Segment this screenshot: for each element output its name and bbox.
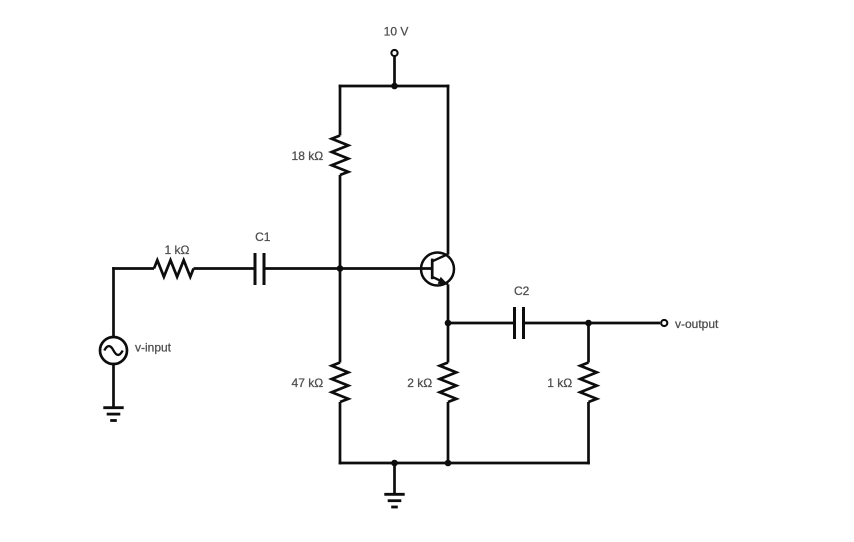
junction at output node: [585, 320, 592, 327]
resistor R 18 kOhm: [332, 136, 349, 176]
svg-text:18 kΩ: 18 kΩ: [292, 149, 324, 163]
svg-text:10 V: 10 V: [384, 25, 409, 39]
wire left chain lower: [339, 402, 342, 464]
wire input corner vertical: [112, 267, 115, 337]
svg-text:1 kΩ: 1 kΩ: [547, 376, 572, 390]
capacitor C2: [515, 307, 524, 339]
wire base node to transistor: [340, 267, 432, 270]
junction at supply: [391, 83, 398, 90]
svg-text:47 kΩ: 47 kΩ: [292, 376, 324, 390]
wire resistor to C1: [194, 267, 256, 270]
resistor R 1 kOhm load: [580, 363, 597, 403]
wire input horizontal left: [112, 267, 154, 270]
junction at ground rail: [391, 460, 398, 467]
wire emitter node to C2: [448, 322, 515, 325]
wire left chain upper: [339, 85, 342, 136]
node v-output terminal: [661, 320, 667, 326]
junction dots: [337, 83, 592, 467]
wire output node to 1k load: [587, 323, 590, 363]
wire bottom rail: [339, 462, 590, 465]
wire 2k to bottom rail: [447, 402, 450, 464]
transistor Q1 NPN: [421, 253, 454, 286]
svg-text:2 kΩ: 2 kΩ: [407, 376, 432, 390]
wire output node to terminal: [589, 322, 661, 325]
wire emitter chain to 2k: [447, 323, 450, 363]
resistor R 1 kOhm input: [154, 260, 194, 277]
wire emitter: [447, 284, 450, 323]
node VCC terminal 10 V: [391, 50, 397, 56]
svg-text:v-output: v-output: [675, 317, 719, 331]
junction at emitter node: [445, 320, 452, 327]
wire top rail: [339, 85, 450, 88]
wire supply stub: [393, 57, 396, 86]
wire collector: [447, 85, 450, 255]
source V1 v-input: [100, 337, 127, 364]
resistor R 2 kOhm: [440, 363, 457, 403]
ground main: [384, 494, 404, 507]
wire ground stub main: [393, 463, 396, 493]
svg-text:C1: C1: [255, 230, 271, 244]
resistor R 47 kOhm: [332, 363, 349, 403]
junction at emitter rail bottom: [445, 460, 452, 467]
capacitor C1: [255, 253, 264, 285]
wire C2 to output node: [524, 322, 589, 325]
svg-text:1 kΩ: 1 kΩ: [165, 243, 190, 257]
svg-text:C2: C2: [514, 284, 530, 298]
wire source to ground: [112, 365, 115, 407]
ground input: [103, 408, 123, 421]
wire C1 to base node: [264, 267, 340, 270]
wire 1k load to bottom rail: [587, 402, 590, 464]
svg-text:v-input: v-input: [135, 341, 172, 355]
wire left chain middle: [339, 175, 342, 363]
junction at base node: [337, 265, 344, 272]
